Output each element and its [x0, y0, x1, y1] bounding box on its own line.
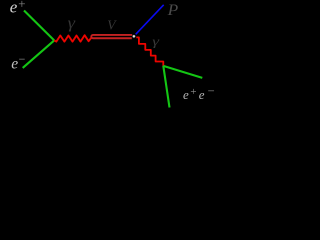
svg-text:−: −	[18, 52, 26, 66]
svg-text:−: −	[207, 84, 215, 98]
svg-text:P: P	[167, 2, 179, 19]
svg-text:γ: γ	[152, 33, 160, 48]
svg-text:+: +	[190, 86, 197, 98]
svg-text:e: e	[183, 87, 189, 102]
svg-text:γ: γ	[68, 15, 76, 32]
svg-text:+: +	[17, 0, 26, 11]
svg-text:e: e	[199, 87, 205, 102]
